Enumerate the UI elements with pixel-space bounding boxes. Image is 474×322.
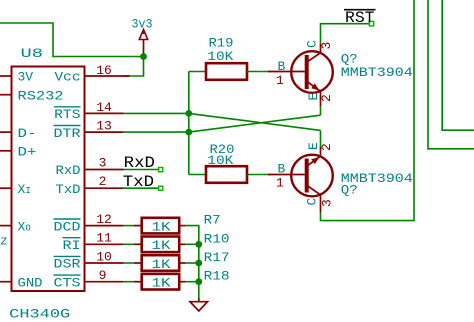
pin 2 TxD [85,174,124,189]
svg-text:9: 9 [99,268,107,283]
svg-text:R7: R7 [204,213,221,228]
svg-text:3v3: 3v3 [132,17,153,32]
resistor R18 [134,274,185,291]
wire R20 to Q2 base [247,174,270,176]
pin stub left 3V [0,75,12,77]
wire pin10 to R17 [124,262,134,264]
pin 11 RI [85,231,124,246]
unconnected square RxD [159,168,163,172]
svg-text:14: 14 [96,100,112,115]
wire bus R10-R18 [198,244,200,281]
wire pin12 to R7 [124,225,134,227]
pin name DCD overline [54,219,81,234]
junction node R17 [195,260,202,267]
svg-text:C: C [305,40,320,48]
pin 13 DTR [85,119,124,134]
power 3v3 symbol [139,30,147,57]
wire R7 to bus [185,226,198,245]
svg-text:CTS: CTS [54,275,81,290]
svg-text:RxD: RxD [124,154,155,172]
svg-text:D-: D- [18,126,37,141]
ground symbol [190,298,208,311]
wire diagonal RTS node to Q2 emitter [189,113,321,130]
svg-text:3: 3 [320,199,335,207]
svg-text:DSR: DSR [54,257,81,272]
wire R17 to bus [185,262,198,264]
wire pin11 to R10 [124,243,134,245]
wire Q1 collector to RST [321,24,370,44]
svg-text:Q?: Q? [341,183,358,198]
svg-text:RI: RI [63,238,81,253]
resistor R17 [134,255,185,272]
pin 9 CTS [85,268,124,283]
wire R10 to bus [185,243,198,245]
svg-text:B: B [278,162,286,177]
resistor R10 [134,237,185,254]
svg-text:1K: 1K [152,257,171,272]
svg-text:10K: 10K [207,153,233,168]
junction node DTR [185,129,192,136]
svg-text:11: 11 [96,231,112,246]
pin 12 DCD [85,212,124,227]
resistor R20 [206,142,247,183]
pin 14 RTS [85,100,124,115]
wire RxD [124,169,159,171]
wire vertical R19-R20 bus [188,72,190,175]
pin stub left D- [0,131,12,133]
svg-text:TxD: TxD [56,182,81,197]
svg-text:3: 3 [99,155,107,170]
svg-text:10K: 10K [207,49,233,64]
svg-text:13: 13 [96,119,112,134]
svg-text:DTR: DTR [54,126,81,141]
svg-text:TxD: TxD [123,173,154,191]
wire Q1 emitter [320,106,322,115]
pin stub left D+ [0,150,12,152]
svg-text:RTS: RTS [54,107,81,122]
svg-text:1: 1 [276,176,284,191]
svg-text:1K: 1K [152,238,171,253]
svg-text:Vcc: Vcc [55,70,81,85]
junction node R10 [195,241,202,248]
svg-text:RST: RST [345,9,375,27]
wire to R20 [189,174,206,176]
svg-text:CH340G: CH340G [9,307,70,322]
svg-text:GND: GND [18,275,43,290]
svg-text:1: 1 [276,73,284,88]
svg-text:C: C [305,198,320,206]
svg-text:RS232: RS232 [18,88,64,103]
pin stub left RS232 [0,94,12,96]
resistor R7 [134,218,185,235]
junction node RTS [185,110,192,117]
label RST overline [344,9,376,27]
svg-text:12: 12 [96,212,112,227]
wire RTS to junction [124,112,189,114]
wire TxD [124,187,159,189]
pin stub left XI [0,187,12,189]
pin 10 DSR [85,249,124,264]
unconnected square RST [369,22,373,26]
pin 16 Vcc [85,63,130,78]
svg-text:10: 10 [96,249,112,264]
svg-text:3V: 3V [18,70,34,85]
wire to R19 [189,71,206,73]
svg-text:R10: R10 [204,231,230,246]
pin stub left XO [0,225,12,227]
resistor R19 [206,35,247,80]
wire bus to ground [198,282,200,298]
wire pin9 to R18 [124,281,134,283]
svg-text:R17: R17 [204,250,230,265]
pin name DTR overline [54,126,81,141]
junction 3v3 node [140,53,147,60]
pin name CTS overline [54,275,81,290]
svg-text:2: 2 [319,143,334,151]
pin name RI overline [63,238,81,253]
wire R18 to bus [185,281,198,283]
junction node R18 [195,278,202,285]
unconnected square TxD [159,186,163,190]
svg-text:1K: 1K [152,219,171,234]
svg-text:RxD: RxD [56,163,81,178]
wire right vertical RXD [428,0,474,149]
svg-text:16: 16 [96,63,112,78]
pin name RTS overline [54,107,81,122]
svg-text:2: 2 [99,174,107,189]
wire DTR to junction [124,131,189,133]
IC U8 body [12,67,85,292]
wire top-left to 3v3 junction [0,23,144,57]
transistor Q2 [268,147,333,213]
pin 3 RxD [85,155,124,170]
svg-text:2: 2 [319,94,334,102]
pin name DSR overline [54,256,81,271]
wire Q2 emitter [320,130,322,147]
wire Q2 collector loop right [321,0,415,221]
svg-text:DCD: DCD [54,219,81,234]
wire junction down to pin16 [124,57,144,77]
svg-text:R18: R18 [204,269,230,284]
svg-text:MMBT3904: MMBT3904 [341,65,413,80]
wire right vertical TXD [442,0,474,130]
pin stub left GND [0,281,12,283]
wire diagonal Q1 emitter to DTR node [189,115,321,132]
svg-text:D+: D+ [18,145,37,160]
svg-text:U8: U8 [21,46,43,61]
svg-text:z: z [0,234,8,249]
transistor Q1 [268,44,333,106]
wire R19 to Q1 base [247,71,270,73]
svg-text:1K: 1K [152,276,171,291]
svg-text:B: B [278,59,286,74]
